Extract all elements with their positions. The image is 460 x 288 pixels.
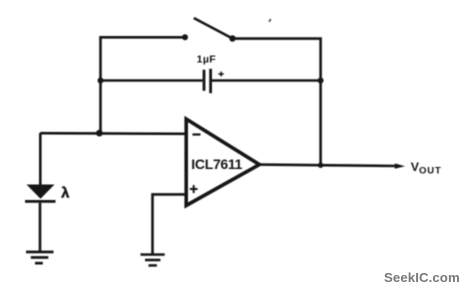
wire: non-inverting input to ground drop — [153, 194, 187, 253]
wire: capacitor right plate to right riser — [211, 79, 321, 82]
op-amp U1 ICL7611 triangle — [186, 119, 259, 206]
node: switch right terminal dot — [229, 35, 235, 41]
wire: top loop from left riser to switch pole — [101, 37, 186, 81]
wire: left riser from capacitor node down to inverting input line — [99, 81, 102, 134]
switch S1 blade (open) — [194, 18, 233, 39]
capacitor C1 polarity + mark — [218, 72, 223, 77]
wire: photodiode cathode to ground — [39, 203, 42, 251]
photodiode D1 (triangle + cathode bar) — [25, 185, 56, 203]
capacitor C1 plates — [204, 69, 211, 93]
svg-text:SeekIC.com: SeekIC.com — [384, 270, 460, 285]
node: junction dot left riser / capacitor wire — [98, 78, 104, 84]
arrowhead: output arrow to VOUT — [395, 163, 405, 168]
svg-text:ICL7611: ICL7611 — [191, 156, 242, 172]
label: net VOUT — [411, 160, 442, 176]
op-amp U1 inverting pin mark - — [193, 133, 201, 135]
svg-text:OUT: OUT — [419, 165, 442, 176]
node: junction dot photodiode line / left riser — [96, 130, 103, 137]
svg-text:λ: λ — [61, 185, 69, 201]
node: switch left terminal dot — [182, 34, 188, 40]
ground: photodiode ground symbol — [26, 251, 54, 265]
wire: inverting input line from photodiode corner to op-amp — [40, 132, 185, 135]
ground: non-inverting input ground symbol — [141, 253, 165, 266]
wire: left riser to capacitor left plate — [101, 79, 203, 82]
op-amp U1 non-inverting pin mark + — [190, 185, 198, 193]
wire: switch right terminal to right riser top — [233, 39, 321, 81]
wire: output from op-amp apex to arrow — [259, 165, 399, 166]
svg-text:1µF: 1µF — [197, 53, 217, 65]
wire: right riser from capacitor node down to output node — [319, 81, 322, 166]
speck: scan artifact near top — [269, 19, 271, 22]
wire: photodiode anode drop from inverting line — [39, 133, 42, 186]
node: junction dot capacitor wire / right riser — [318, 78, 324, 84]
node: junction dot right riser / output wire — [318, 163, 323, 168]
